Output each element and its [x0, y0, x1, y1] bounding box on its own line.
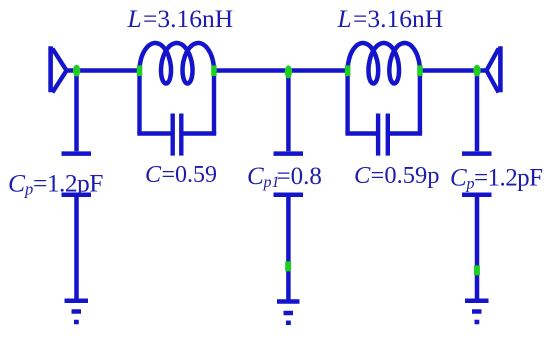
node: left port junction — [73, 65, 80, 77]
svg-text:=1.2pF: =1.2pF — [474, 165, 542, 192]
capacitor Cp (right shunt) — [462, 71, 492, 301]
svg-text:=1.2pF: =1.2pF — [33, 169, 103, 198]
capacitor C2 (parallel with L2) — [345, 72, 422, 156]
ground (left) — [65, 301, 89, 322]
svg-text:=0.59: =0.59 — [162, 162, 218, 188]
inductor L1 — [140, 43, 215, 84]
svg-text:C: C — [450, 165, 467, 192]
label Cp1=0.8 — [247, 163, 322, 191]
node: L2 left pin — [345, 65, 351, 76]
capacitor C1 (parallel with L1) — [137, 72, 216, 156]
svg-text:L: L — [127, 4, 142, 33]
svg-text:C: C — [247, 163, 264, 190]
node: middle shunt lower pin — [285, 261, 291, 271]
wire: middle node to L2 — [288, 68, 348, 72]
wire: left port to L1 — [64, 68, 140, 72]
node: L1 left pin — [137, 65, 143, 76]
svg-text:=0.8: =0.8 — [277, 163, 322, 190]
svg-text:C: C — [354, 162, 371, 189]
port P1 (left) — [51, 46, 67, 92]
port P2 (right) — [487, 46, 501, 92]
svg-text:L: L — [337, 4, 352, 33]
wire: L1 to middle node — [214, 68, 289, 72]
svg-text:=0.59p: =0.59p — [371, 162, 440, 189]
ground (right) — [465, 301, 489, 322]
label C=0.59 — [145, 162, 217, 188]
svg-text:C: C — [8, 169, 26, 198]
capacitor Cp (left shunt) — [62, 71, 92, 301]
svg-text:p: p — [24, 180, 33, 199]
label Cp=1.2pF (left) — [8, 169, 103, 199]
node: L1 right pin — [211, 65, 217, 76]
node: L2 right pin — [417, 65, 423, 76]
node: right port junction — [473, 65, 480, 77]
label C=0.59p — [354, 162, 439, 189]
svg-text:=3.16nH: =3.16nH — [353, 4, 443, 33]
node: middle junction — [285, 65, 292, 78]
wire: L2 to right port — [420, 68, 489, 72]
label Cp=1.2pF (right) — [450, 165, 542, 193]
label L=3.16nH (over L1) — [127, 4, 234, 33]
inductor L2 — [348, 43, 420, 84]
ground (middle) — [277, 302, 300, 323]
label L=3.16nH (over L2) — [337, 4, 444, 33]
svg-text:=3.16nH: =3.16nH — [143, 4, 233, 33]
node: right shunt lower pin — [474, 265, 480, 275]
capacitor Cp1 (middle shunt) — [274, 71, 304, 302]
svg-text:C: C — [145, 162, 162, 188]
